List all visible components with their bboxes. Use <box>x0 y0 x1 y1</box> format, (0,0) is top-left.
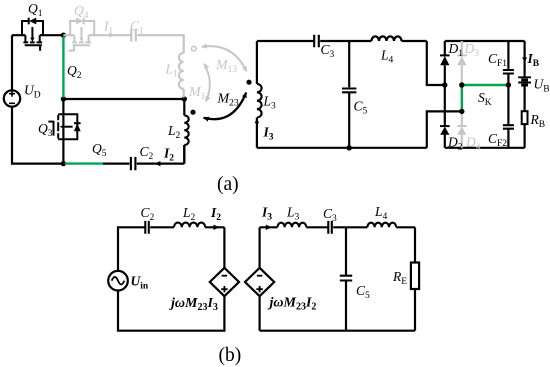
wire C2 corner up to L2 <box>183 145 185 164</box>
wire AC input 2 (bottom) to bridge <box>427 111 462 147</box>
svg-text:I3: I3 <box>263 125 274 143</box>
node: bridge AC1 / D1-D2 junction <box>442 82 447 87</box>
inductor L4 <box>372 36 402 41</box>
svg-text:RB: RB <box>530 112 546 130</box>
switch wire Q5 (green, closed) <box>65 162 103 164</box>
node: Q2 bottom / mid wire <box>61 96 66 101</box>
svg-text:jωM23I3: jωM23I3 <box>169 296 218 313</box>
svg-text:L4: L4 <box>374 204 388 222</box>
dependent source jwM23I2 (diamond) <box>245 227 274 330</box>
svg-text:M13: M13 <box>215 58 237 75</box>
inductor L3 (b) <box>278 223 307 228</box>
bottom wire of middle circuit <box>257 147 427 149</box>
svg-text:D4: D4 <box>465 135 481 153</box>
svg-text:I1: I1 <box>103 19 114 37</box>
current arrow I_B (down) <box>523 41 525 77</box>
svg-text:Q1: Q1 <box>28 1 43 19</box>
svg-text:Q2: Q2 <box>67 63 82 81</box>
resistor R_B <box>522 85 528 148</box>
svg-text:Q3: Q3 <box>38 121 53 139</box>
svg-text:L2: L2 <box>182 205 196 223</box>
diode D1 <box>440 41 450 126</box>
svg-text:L2: L2 <box>167 123 181 141</box>
wire U_D bottom to bottom rail <box>12 107 63 164</box>
inductor L2 <box>184 99 188 164</box>
bottom DC rail <box>445 147 525 149</box>
svg-text:L3: L3 <box>263 94 277 112</box>
top wire right loop with I3 arrow <box>260 226 278 228</box>
svg-text:(b): (b) <box>219 345 242 366</box>
svg-text:CF1: CF1 <box>488 51 507 69</box>
svg-text:UB: UB <box>534 77 550 95</box>
svg-text:C3: C3 <box>321 42 335 60</box>
voltage source U_D <box>4 90 20 106</box>
svg-text:C5: C5 <box>356 283 370 301</box>
source U_in <box>108 271 128 291</box>
svg-text:I3: I3 <box>261 205 272 223</box>
wire source top / left riser <box>118 227 145 271</box>
capacitor C3 (b) <box>328 221 332 234</box>
node: mid wire / L1 / L2 junction <box>182 96 187 101</box>
switch wire Q2 (green, closed) <box>62 37 64 98</box>
svg-text:M12: M12 <box>188 85 210 102</box>
node: D4 top <box>459 109 464 114</box>
wire to dependent source 1 <box>223 227 225 267</box>
node: D3 bottom <box>459 82 464 87</box>
battery U_B <box>518 77 531 85</box>
svg-text:(a): (a) <box>217 174 239 195</box>
capacitor C2 (b) <box>145 221 149 234</box>
svg-text:I2: I2 <box>163 146 174 164</box>
svg-text:D2: D2 <box>447 135 463 153</box>
wire mid horizontal <box>63 98 184 100</box>
inductor L4 (b) <box>367 223 396 228</box>
current arrow I2 (left) <box>155 161 161 166</box>
capacitor CF2 <box>503 85 514 148</box>
transistor Q3 <box>48 99 80 164</box>
bottom rail right loop <box>260 330 415 332</box>
phasing dot L2 <box>190 110 195 115</box>
inductor L1 (inactive) <box>179 53 184 89</box>
mutual coupling arc M13 (grey) <box>202 46 247 71</box>
capacitor C5 (b) <box>340 227 352 330</box>
current arrow I3 (b) <box>266 225 272 230</box>
node: C5 bottom junction <box>347 145 352 150</box>
phasing circle L1 (grey open) <box>192 46 197 51</box>
capacitor CF1 <box>503 41 514 85</box>
capacitor C3 <box>314 35 319 48</box>
current arrow I2 (b) <box>214 225 220 230</box>
dependent source jwM23I3 (diamond) <box>210 268 239 296</box>
phasing dot L3 <box>246 80 251 85</box>
wire source1 bottom / bottom rail left loop <box>118 291 224 331</box>
resistor R_E <box>411 227 419 330</box>
inductor L3 <box>257 41 262 148</box>
svg-text:L3: L3 <box>286 205 300 223</box>
rectifier bridge and output of part (a) <box>440 41 531 148</box>
svg-text:RE: RE <box>392 269 407 287</box>
wire AC input 1 (top) to bridge <box>427 41 445 85</box>
wire C1 to L1 (grey) <box>137 35 184 53</box>
diode D3 (inactive) <box>457 41 467 85</box>
svg-text:C2: C2 <box>141 205 155 223</box>
node: CF1-CF2 midpoint <box>506 82 511 87</box>
switch S_K wires (green, closed) <box>462 85 509 111</box>
capacitor C2 <box>103 157 184 170</box>
wire Q4 to C1 (grey) with current arrow I1 <box>105 34 132 36</box>
svg-text:SK: SK <box>478 90 492 108</box>
top wire to C3 <box>257 40 314 42</box>
capacitor C1 (inactive) <box>131 29 136 42</box>
node: bottom rail / Q3 source <box>61 161 66 166</box>
diode D2 <box>440 126 450 148</box>
node: Q1 drain / Q2 / Q4 junction <box>61 33 66 38</box>
svg-text:CF2: CF2 <box>488 131 507 149</box>
svg-text:IB: IB <box>527 51 540 69</box>
inductor L2 (b) <box>174 223 205 228</box>
svg-text:L1: L1 <box>165 62 179 80</box>
svg-text:Uin: Uin <box>131 274 149 292</box>
diode D4 (inactive) <box>457 111 467 147</box>
svg-text:C3: C3 <box>323 206 337 224</box>
middle resonant circuit of part (a) <box>246 35 461 151</box>
mutual coupling arc M23 (black) <box>204 93 247 120</box>
svg-text:jωM23I2: jωM23I2 <box>268 296 317 313</box>
wire U_D top to Q1 left <box>11 35 13 90</box>
svg-text:UD: UD <box>24 83 41 101</box>
transistor Q1 <box>12 18 63 51</box>
svg-text:C5: C5 <box>354 99 368 117</box>
transistor Q4 (inactive) <box>63 18 104 51</box>
current arrow I3 (up) <box>255 118 260 123</box>
inactive branch (grey): Q4, I1, C1, L1 <box>63 18 246 102</box>
svg-text:L4: L4 <box>380 48 394 66</box>
svg-text:M23: M23 <box>217 92 239 109</box>
top DC rail <box>445 40 525 42</box>
svg-text:Q5: Q5 <box>92 141 107 159</box>
svg-text:I2: I2 <box>210 205 221 223</box>
svg-text:C2: C2 <box>140 144 154 162</box>
capacitor C5 (shunt) <box>342 41 356 148</box>
mutual coupling arc M12 (grey) <box>204 64 210 102</box>
